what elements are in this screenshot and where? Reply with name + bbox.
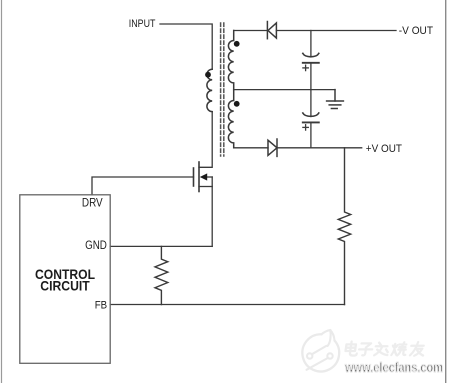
left page border	[1, 0, 3, 383]
char 电	[345, 342, 359, 356]
transformer secondary top winding	[228, 31, 233, 90]
char 子	[358, 343, 373, 355]
svg-text:FB: FB	[95, 300, 107, 312]
transformer secondary bottom winding	[228, 90, 233, 148]
ground	[327, 90, 344, 109]
gate bar	[193, 168, 195, 186]
char 发	[374, 343, 389, 356]
transformer T1 primary winding	[207, 69, 212, 111]
watermark logo	[302, 330, 339, 371]
channel bar	[198, 162, 200, 192]
svg-text:CIRCUIT: CIRCUIT	[40, 278, 90, 294]
phase dot primary	[205, 72, 211, 78]
capacitor C1 wire top	[310, 31, 312, 57]
resistor R2	[338, 148, 350, 305]
mosfet Q1	[194, 162, 213, 192]
svg-text:DRV: DRV	[82, 196, 103, 210]
svg-text:www.elecfans.com: www.elecfans.com	[344, 360, 443, 375]
wire top rail right to -V OUT	[276, 30, 396, 32]
watermark chinese text 电子发烧友 (drawn as paths)	[345, 342, 425, 356]
wire bottom rail left	[234, 147, 268, 149]
svg-text:INPUT: INPUT	[129, 18, 156, 30]
wire primary bottom to mosfet drain	[199, 112, 212, 168]
char 烧	[391, 342, 407, 355]
svg-text:+V OUT: +V OUT	[366, 143, 402, 155]
source horizontal	[199, 186, 212, 188]
phase dot secondary bottom	[234, 101, 240, 107]
diode D1 (to -V OUT)	[267, 22, 276, 39]
capacitor C2 wire bottom	[310, 122, 312, 147]
capacitor C1 wire bottom	[310, 63, 312, 90]
phase dot secondary top	[234, 41, 240, 47]
C2 plus sign	[303, 125, 308, 130]
wire GND pin to source	[110, 245, 212, 247]
capacitor C1	[303, 53, 319, 62]
resistor R1	[155, 246, 168, 304]
wire FB rail	[110, 304, 344, 306]
wire top rail left	[234, 30, 268, 32]
capacitor C2 wire top	[310, 90, 312, 117]
wire bottom rail right to +V OUT	[277, 147, 362, 149]
svg-text:-V OUT: -V OUT	[399, 25, 433, 37]
wire input to primary	[160, 24, 212, 69]
C1 plus sign	[303, 65, 308, 70]
mosfet Q1 gate wire from DRV	[92, 177, 194, 195]
svg-text:GND: GND	[85, 240, 107, 252]
diode D2 (to +V OUT)	[268, 139, 277, 156]
capacitor C2	[303, 113, 319, 122]
wire source down to gnd rail	[211, 177, 213, 246]
body line	[205, 176, 212, 178]
body arrow	[200, 173, 207, 180]
wire center tap	[234, 89, 335, 91]
transformer core	[220, 23, 222, 156]
right page border	[445, 0, 447, 383]
char 友	[410, 342, 425, 356]
control circuit box	[20, 195, 110, 363]
